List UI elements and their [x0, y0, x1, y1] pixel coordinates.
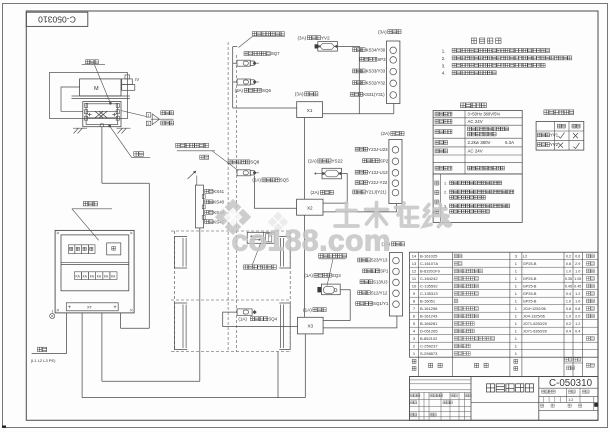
- label coil with leader: [110, 126, 132, 158]
- svg-text:SQ4: SQ4: [268, 316, 277, 321]
- base plate lines: [72, 95, 130, 97]
- svg-text:YS22: YS22: [331, 159, 343, 164]
- svg-text:(2A): (2A): [311, 190, 320, 195]
- svg-text:X1: X1: [307, 108, 313, 113]
- svg-text:1.0: 1.0: [566, 300, 571, 304]
- motor M box: [80, 79, 121, 96]
- svg-text:S23/Y13: S23/Y13: [371, 258, 388, 263]
- panel PLC box: [107, 243, 121, 255]
- plug labels: [161, 111, 174, 115]
- svg-text:B-161025: B-161025: [420, 254, 438, 259]
- svg-text:AC 24V: AC 24V: [468, 148, 483, 153]
- cluster 1A terminal labels: [358, 258, 371, 262]
- svg-text:1.: 1.: [442, 49, 446, 54]
- label home-position switch with leader: [244, 265, 277, 269]
- svg-text:KS41: KS41: [213, 189, 224, 194]
- label pump-motor with leader: [86, 60, 99, 64]
- svg-text:Y23J-U23: Y23J-U23: [368, 147, 388, 152]
- svg-text:1.2: 1.2: [575, 322, 580, 326]
- wire dashed-box drop x278: [277, 352, 279, 398]
- terminal strip 2A: [389, 139, 402, 203]
- svg-text:Y22J-Y22: Y22J-Y22: [368, 180, 388, 185]
- svg-text:D-051265: D-051265: [420, 329, 438, 334]
- svg-text:C-16107A: C-16107A: [420, 261, 438, 266]
- wire X2 to strip 2A: [323, 204, 396, 212]
- svg-text:2.9: 2.9: [575, 262, 580, 266]
- terminal attachment IV: [125, 75, 129, 79]
- wire bracket bus to X1: [232, 47, 234, 108]
- wire SQ4 to X3: [223, 312, 298, 326]
- tall plug terminal box: [195, 185, 203, 228]
- wire center vertical x200: [199, 228, 201, 381]
- svg-text:2: 2: [147, 122, 149, 126]
- svg-text:(3A): (3A): [235, 88, 244, 93]
- svg-text:JO4+1252/06: JO4+1252/06: [523, 307, 546, 311]
- svg-text:X2: X2: [307, 205, 313, 210]
- svg-text:Y21J(Y21): Y21J(Y21): [366, 190, 387, 195]
- tech requirements heading: [471, 38, 501, 43]
- wire pump down to bus: [101, 127, 103, 184]
- check and cross marks: [559, 136, 561, 138]
- svg-text:co188.com: co188.com: [232, 225, 392, 258]
- svg-text:0.2: 0.2: [566, 255, 571, 259]
- valve block center band: [86, 110, 118, 112]
- svg-text:SQ6: SQ6: [262, 88, 271, 93]
- svg-text:X3: X3: [307, 324, 313, 329]
- cylinder bracket left upper: [175, 237, 188, 269]
- cluster 3A terminal labels: [353, 48, 366, 52]
- parts list header row: [410, 376, 599, 378]
- svg-text:C-050310: C-050310: [38, 15, 76, 25]
- svg-text:0.35: 0.35: [565, 277, 572, 281]
- wire YV2 to X1/strip: [337, 46, 359, 113]
- pipe labels KS41/KS40/KS43/KS42: [205, 189, 213, 193]
- panel inner box: [61, 235, 129, 291]
- usage notes vertical caption: [435, 181, 439, 185]
- svg-text:GP25-B: GP25-B: [523, 300, 537, 304]
- svg-text:0.8: 0.8: [566, 262, 571, 266]
- valve block bottom tab: [100, 124, 104, 127]
- wire panel2 bottom bus: [81, 313, 83, 398]
- cylinder bracket right lower: [279, 303, 290, 350]
- wire vertical x149: [148, 183, 150, 328]
- title block left grid: [410, 379, 472, 381]
- top-left title box: [26, 12, 88, 26]
- svg-text:IV: IV: [135, 77, 139, 82]
- home-position switch device: [247, 232, 274, 243]
- junction box X3: [298, 317, 324, 334]
- svg-text:1.05: 1.05: [574, 277, 581, 281]
- svg-text:XT: XT: [87, 304, 93, 309]
- svg-text:KS32/Y32: KS32/Y32: [366, 80, 386, 85]
- svg-text:KS31(Y31): KS31(Y31): [363, 92, 385, 97]
- panel bottom row devices: [74, 272, 81, 280]
- svg-text:0.45: 0.45: [565, 285, 572, 289]
- wire panel3 mid bus: [101, 313, 103, 381]
- switch SQ4: [237, 309, 252, 315]
- svg-text:YV2: YV2: [321, 35, 330, 40]
- svg-text:0.4: 0.4: [575, 330, 580, 334]
- limit switch SQ7: [237, 60, 250, 66]
- svg-text:GP25-B: GP25-B: [523, 277, 537, 281]
- terminal strip 3A: [387, 41, 400, 104]
- cluster 2A terminal labels: [355, 147, 368, 151]
- svg-text:JO4-1325/06: JO4-1325/06: [523, 315, 545, 319]
- label control box with leader: [83, 202, 97, 206]
- svg-text:AC 24V: AC 24V: [468, 119, 483, 124]
- label SQ8: [228, 160, 250, 164]
- wire SQ6 stub: [233, 81, 237, 83]
- svg-text:10: 10: [412, 284, 417, 289]
- svg-text:S-298873: S-298873: [420, 351, 438, 356]
- svg-text:YV1: YV1: [550, 132, 559, 137]
- svg-text:0.8: 0.8: [566, 307, 571, 311]
- svg-text:1:2: 1:2: [568, 398, 573, 402]
- wire X3 to strip 1A: [323, 316, 397, 328]
- wire pump horizontal jog: [102, 182, 149, 184]
- title block right grid: [539, 387, 598, 389]
- switch SQ8/SQ5 plug pair: [237, 170, 250, 176]
- terminal strip 1A: [389, 253, 402, 316]
- svg-text:C-259237: C-259237: [420, 344, 438, 349]
- svg-text:C-135313: C-135313: [420, 291, 438, 296]
- svg-text:(1A): (1A): [303, 307, 312, 312]
- limit switch SQ6: [237, 79, 250, 85]
- panel divider band: [61, 261, 129, 263]
- svg-text:L2: L2: [523, 255, 527, 259]
- label switch contact with leader: [319, 254, 347, 258]
- svg-text:SQ3: SQ3: [332, 273, 341, 278]
- svg-text:B-852102: B-852102: [420, 336, 438, 341]
- leader to plug connector: [121, 111, 146, 117]
- control panel outer box: [55, 230, 134, 313]
- title block black marker cell: [594, 403, 598, 407]
- junction dot lower: [108, 125, 111, 128]
- watermark logo left: [215, 209, 232, 226]
- label power source: [38, 347, 47, 351]
- junction box X1: [297, 102, 323, 118]
- svg-text:SP3: SP3: [377, 57, 386, 62]
- svg-text:14: 14: [412, 254, 417, 259]
- svg-text:0.45: 0.45: [574, 285, 581, 289]
- svg-text:SQ8: SQ8: [250, 160, 259, 165]
- title block outer: [410, 377, 599, 421]
- svg-text:(2A): (2A): [308, 159, 317, 164]
- wire panel4 to x149: [120, 313, 122, 328]
- svg-text:GP25-B: GP25-B: [523, 292, 537, 296]
- panel terminal strip XT: [66, 303, 118, 311]
- solenoid valve YV2: [318, 42, 338, 52]
- svg-text:(1A): (1A): [304, 273, 313, 278]
- svg-text:3~50Hz 380V/5%: 3~50Hz 380V/5%: [468, 112, 501, 117]
- svg-text:1.0: 1.0: [575, 270, 580, 274]
- svg-text:0.6: 0.6: [575, 255, 580, 259]
- hydraulic unit dashed left edge: [174, 231, 176, 352]
- corner mark bottom-left: [2, 426, 6, 428]
- plug connector pins: [146, 113, 151, 118]
- svg-text:M: M: [94, 86, 99, 92]
- solenoid valve YS22: [322, 168, 342, 179]
- svg-text:KS34/Y30: KS34/Y30: [366, 47, 386, 52]
- valve block ports left: [85, 103, 88, 107]
- svg-text:SQ1/Y1: SQ1/Y1: [373, 301, 389, 306]
- hydraulic station table texts: [557, 124, 565, 128]
- switch SQ3: [321, 284, 340, 295]
- svg-text:(2A): (2A): [381, 131, 390, 136]
- svg-text:(L1 L2 L3 PE): (L1 L2 L3 PE): [31, 358, 56, 363]
- svg-text:Y13J-U13: Y13J-U13: [368, 170, 388, 175]
- junction dot upper: [109, 102, 112, 105]
- svg-text:C-164242: C-164242: [420, 276, 438, 281]
- svg-text:1.0: 1.0: [575, 300, 580, 304]
- watermark hanzi tu-mu-zai-xian: [335, 203, 451, 227]
- hydraulic unit dashed boundary bottom: [171, 351, 290, 353]
- svg-text:1.0: 1.0: [566, 270, 571, 274]
- svg-text:1: 1: [147, 113, 149, 117]
- svg-text:B-161243: B-161243: [420, 314, 438, 319]
- svg-text:B-168281: B-168281: [420, 321, 438, 326]
- svg-text:(2A): (2A): [252, 178, 261, 183]
- pump unit outer outline: [50, 72, 128, 118]
- valve block outer: [83, 102, 121, 127]
- mounting feet hatches right: [118, 128, 123, 134]
- valve block inner: [86, 104, 118, 125]
- svg-text:0.2: 0.2: [566, 322, 571, 326]
- svg-text:KS40: KS40: [213, 199, 224, 204]
- svg-text:12: 12: [412, 269, 417, 274]
- svg-text:(1A): (1A): [238, 316, 247, 321]
- watermark layer: [215, 199, 451, 258]
- svg-text:(3A): (3A): [378, 29, 387, 34]
- title block left tiny texts: [411, 394, 420, 397]
- plug connector line: [151, 118, 174, 120]
- svg-text:1.: 1.: [444, 181, 447, 185]
- wire SQ7 stub: [233, 62, 237, 64]
- inner dashed verticals: [227, 42, 229, 352]
- svg-text:B-63201F9: B-63201F9: [420, 269, 441, 274]
- usage notes box: [433, 174, 522, 223]
- svg-text:13: 13: [412, 261, 417, 266]
- valve block ports right: [116, 103, 119, 107]
- svg-text:SQ7: SQ7: [271, 51, 280, 56]
- svg-text:4.: 4.: [442, 71, 446, 76]
- hydraulic station table grid: [536, 122, 584, 151]
- svg-text:C-050310: C-050310: [549, 378, 593, 389]
- svg-text:0.4: 0.4: [566, 292, 571, 296]
- hydraulic unit dashed right edge: [289, 231, 291, 352]
- svg-text:SP1: SP1: [380, 268, 389, 273]
- svg-text:6.3A: 6.3A: [505, 140, 514, 145]
- wire X2 down to X3: [304, 215, 306, 317]
- svg-text:3.: 3.: [442, 63, 446, 68]
- cylinder bracket left lower: [175, 303, 188, 350]
- hydraulic station table title: [544, 110, 574, 115]
- characteristics table grid: [433, 110, 522, 173]
- panel PE ground symbol: [50, 313, 55, 318]
- title block right small texts: [542, 390, 556, 393]
- svg-text:JO71-6250/20: JO71-6250/20: [523, 322, 547, 326]
- hydraulic unit dashed boundary top: [171, 230, 290, 232]
- junction box X2: [297, 199, 323, 215]
- svg-text:S12/Y12: S12/Y12: [371, 290, 388, 295]
- valve block cross pattern: [95, 111, 103, 118]
- wire panel1 power feed: [66, 313, 68, 354]
- svg-text:1.0: 1.0: [566, 315, 571, 319]
- plug connector wedge: [152, 114, 159, 125]
- label plug: [200, 155, 209, 159]
- hydraulic unit dashed boundary mid: [171, 299, 290, 301]
- svg-text:2.2kw 380V: 2.2kw 380V: [468, 140, 491, 145]
- title block drawing name: [487, 384, 534, 392]
- panel corner screws: [57, 232, 59, 234]
- motor left pipe loop: [61, 87, 83, 111]
- valve block end arrows: [88, 114, 92, 116]
- cylinder bracket right upper: [279, 237, 290, 269]
- panel top row devices: [68, 245, 74, 254]
- wire X1 down to X2: [304, 118, 306, 200]
- svg-text:2.0: 2.0: [575, 315, 580, 319]
- svg-text:YV2: YV2: [550, 142, 559, 147]
- watermark logo faint echo: [268, 212, 289, 233]
- svg-text:SQ5: SQ5: [280, 178, 289, 183]
- svg-text:2.: 2.: [444, 190, 447, 194]
- label SQ7: [244, 52, 270, 56]
- svg-text:GP25-B: GP25-B: [523, 285, 537, 289]
- plug symbol above box: [188, 172, 195, 179]
- svg-text:0.8: 0.8: [575, 307, 580, 311]
- svg-text:C-135592: C-135592: [420, 284, 438, 289]
- characteristics table title: [461, 103, 487, 108]
- svg-text:(3A): (3A): [298, 35, 307, 40]
- svg-text:2.: 2.: [442, 56, 446, 61]
- svg-text:SP2: SP2: [380, 158, 389, 163]
- characteristics table row labels: [435, 112, 452, 116]
- label solenoid-of-switch with leader: [176, 143, 209, 147]
- mounting feet hatches left: [74, 128, 79, 134]
- svg-text:JO71-6350/20: JO71-6350/20: [523, 330, 547, 334]
- parts list table: [410, 252, 599, 357]
- wire SQ3 to X3: [323, 290, 350, 321]
- svg-text:0.4: 0.4: [566, 330, 571, 334]
- svg-text:B-161256: B-161256: [420, 306, 438, 311]
- svg-text:B-16051: B-16051: [420, 299, 436, 304]
- wire riser to X3: [304, 334, 306, 398]
- wire SQ5 to X2: [254, 176, 296, 209]
- svg-text:S13/U3: S13/U3: [373, 279, 388, 284]
- svg-text:KS33/Y33: KS33/Y33: [366, 69, 386, 74]
- wire YS22 to X2: [323, 174, 347, 204]
- svg-text:(3A): (3A): [295, 92, 304, 97]
- svg-text:1.2: 1.2: [575, 292, 580, 296]
- svg-text:GP25-B: GP25-B: [523, 262, 537, 266]
- label switch protect cover with leader: [252, 32, 284, 36]
